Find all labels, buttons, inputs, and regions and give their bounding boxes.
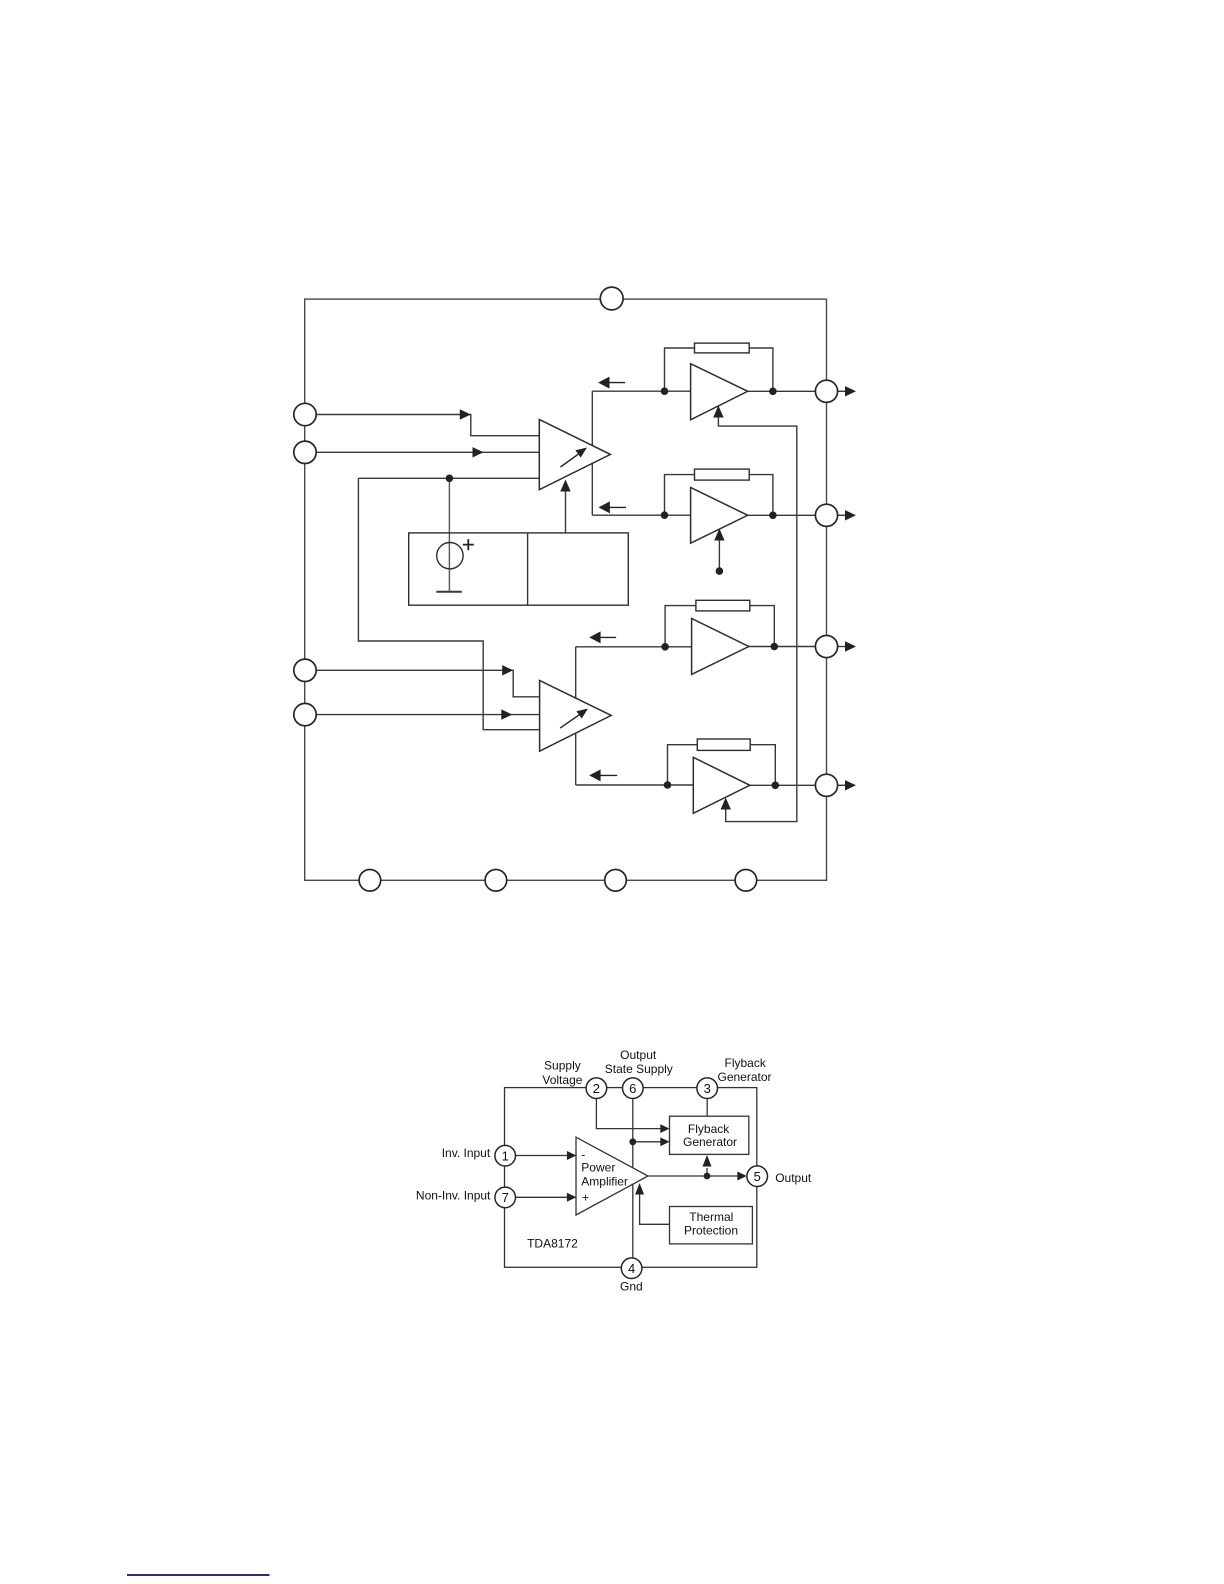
arrowhead output pin OUT3	[845, 641, 856, 651]
pin GND1	[359, 870, 381, 892]
pin 6	[623, 1078, 644, 1099]
svg-text:Gnd: Gnd	[620, 1279, 643, 1293]
arrowhead up into amp from thermal protection	[635, 1183, 644, 1195]
wire pin3 to flyback generator top	[706, 1098, 708, 1116]
svg-text:Output: Output	[775, 1171, 812, 1185]
wire to amp A1 input	[592, 390, 690, 392]
pin 1	[495, 1145, 516, 1166]
wire to amp A3 input	[576, 646, 692, 648]
output lead pin OUT2	[837, 514, 846, 516]
feedback loop around amp A1	[665, 348, 773, 391]
arrowhead pin1 wire	[460, 409, 471, 419]
svg-text:Protection: Protection	[684, 1223, 738, 1237]
arrowhead output pin OUT2	[845, 510, 856, 520]
svg-text:+: +	[582, 1191, 589, 1205]
pin GND3	[605, 870, 627, 892]
svg-text:4: 4	[628, 1261, 635, 1276]
wire amp A2 output to pin	[748, 514, 816, 516]
arrowhead output pin OUT4	[845, 780, 856, 790]
footer rule (blue)	[127, 1574, 270, 1576]
wire reference node to amp U1 lower input	[358, 477, 539, 479]
arrowhead pin2 wire	[473, 447, 484, 457]
op-amp U2 (lower power amp)	[540, 680, 612, 751]
wire pin2 to amp U1 middle input	[316, 451, 539, 453]
arrowhead output pin OUT1	[845, 386, 856, 396]
arrowhead into amp inverting	[567, 1151, 577, 1160]
pin top supply	[600, 287, 623, 310]
wire pin3 to amp U2 upper input	[316, 670, 540, 697]
junction dot A1 output	[769, 388, 777, 396]
svg-text:Generator: Generator	[717, 1070, 771, 1084]
svg-text:3: 3	[704, 1081, 711, 1096]
wire bias from block to amp U1 bottom	[565, 491, 567, 533]
svg-text:Voltage: Voltage	[542, 1073, 582, 1087]
gain arrow inside U1	[561, 453, 580, 467]
svg-text:State Supply: State Supply	[605, 1062, 673, 1076]
wire to amp A4 input	[576, 784, 694, 786]
feedback loop around amp A2	[665, 475, 773, 516]
svg-text:5: 5	[754, 1169, 761, 1184]
wire reference node down to current source	[448, 478, 450, 592]
flow annotation arrow above A3 input	[600, 636, 616, 638]
pin circles of top diagram	[294, 287, 838, 891]
arrowhead bias into A4	[721, 798, 731, 810]
arrowhead into flyback gen from pin6	[660, 1137, 669, 1146]
op-amp A2 (output buffer 2)	[691, 487, 748, 543]
labels of TDA8172 diagram	[416, 1048, 812, 1293]
output lead pin OUT1	[837, 390, 846, 392]
pin 5	[747, 1166, 768, 1187]
pin IN1-	[294, 441, 316, 463]
arrowhead pin4 wire	[501, 709, 512, 719]
arrowhead bias into A1	[713, 406, 723, 418]
svg-text:TDA8172: TDA8172	[527, 1236, 578, 1250]
pin 4	[621, 1258, 642, 1279]
arrowhead into amp non-inverting	[567, 1193, 577, 1202]
svg-text:Generator: Generator	[683, 1135, 737, 1149]
pin IN2-	[294, 703, 316, 725]
arrowhead into flyback gen from pin2	[660, 1124, 669, 1133]
current source / bias block box	[409, 533, 629, 605]
pin OUT2	[815, 504, 837, 526]
resistor R3	[696, 600, 750, 611]
arrowhead bias into A2	[714, 529, 724, 541]
svg-text:Non-Inv. Input: Non-Inv. Input	[416, 1189, 491, 1203]
junction dot A4 output	[772, 782, 780, 790]
bias stub wire below amp A2	[718, 539, 720, 571]
wire U1 output bus down	[591, 391, 593, 515]
junction dot pin6 branch	[629, 1138, 636, 1145]
pin OUT3	[815, 635, 837, 657]
junction dot A2 output	[769, 512, 777, 520]
flyback generator box	[670, 1116, 749, 1154]
arrowhead pin3 wire	[502, 665, 513, 675]
pin OUT1	[815, 380, 837, 402]
pin IN1+	[294, 403, 316, 425]
output lead pin OUT3	[837, 646, 846, 648]
junction dot A3 input	[661, 643, 669, 651]
junction dot output node	[704, 1173, 711, 1180]
op-amp U1 (upper power amp)	[539, 419, 610, 489]
junction dot A4 input	[664, 781, 672, 789]
wire pin4 to amp U2 middle input	[316, 714, 540, 716]
svg-text:Inv. Input: Inv. Input	[442, 1146, 491, 1160]
pin circles of TDA8172	[495, 1078, 768, 1279]
wire pin1 to amp U1 upper input	[316, 415, 539, 436]
thermal protection box	[670, 1207, 753, 1244]
wire amp A3 output to pin	[749, 646, 816, 648]
wire reference to amp U2 lower input (L path)	[358, 478, 539, 729]
wire pin2 to flyback generator	[596, 1098, 661, 1129]
svg-text:Supply: Supply	[544, 1059, 581, 1073]
wire pin6 branch to flyback generator	[633, 1141, 661, 1143]
pin 3	[697, 1078, 718, 1099]
ground bar of current source	[436, 591, 462, 593]
flow annotation arrow above A1 input	[589, 377, 626, 782]
svg-text:-: -	[581, 1148, 585, 1162]
IC boundary box TDA8172	[505, 1088, 757, 1268]
svg-text:Amplifier: Amplifier	[581, 1175, 628, 1189]
bias block divider	[527, 533, 529, 605]
svg-text:2: 2	[593, 1081, 600, 1096]
junction dot A2 input	[661, 511, 669, 519]
op-amp A4 (output buffer 4)	[693, 757, 750, 813]
resistor R2	[695, 469, 750, 480]
svg-text:7: 7	[502, 1190, 509, 1205]
terminal dot below A2 bias	[716, 567, 724, 575]
bias chain wire amp A1 to amp A4	[718, 416, 796, 822]
outer IC boundary box (top diagram)	[305, 299, 827, 880]
current source I1 circle	[437, 543, 463, 569]
output lead pin OUT4	[837, 784, 846, 786]
svg-text:1: 1	[502, 1148, 509, 1163]
wire amp output to pin5	[648, 1175, 738, 1177]
svg-text:Flyback: Flyback	[688, 1122, 730, 1136]
pin 2	[586, 1078, 607, 1099]
plus label of current source	[463, 539, 474, 550]
op-amp A3 (output buffer 3)	[692, 618, 749, 674]
arrowhead up into flyback gen bottom	[703, 1155, 712, 1167]
resistor R1	[695, 343, 750, 353]
wire pin7 to amp non-inverting input	[515, 1196, 567, 1198]
junction dot node ref	[446, 475, 454, 483]
wire U2 output bus down	[575, 647, 577, 785]
wire pin6 down to gnd pin4	[632, 1098, 634, 1258]
flow annotation arrow above A2 input	[609, 506, 626, 508]
pin 7	[495, 1187, 516, 1208]
arrowhead bias into U1	[560, 480, 570, 492]
svg-text:Output: Output	[620, 1048, 657, 1062]
pin GND4	[735, 870, 757, 892]
wire output node up to flyback generator	[706, 1168, 708, 1176]
svg-text:Power: Power	[581, 1161, 615, 1175]
svg-text:Flyback: Flyback	[725, 1056, 767, 1070]
gain arrow inside U2	[560, 714, 580, 728]
op-amp A1 (output buffer 1)	[691, 364, 748, 420]
arrowhead into pin5	[737, 1172, 747, 1181]
flow annotation arrow above A4 input	[600, 774, 617, 776]
pin GND2	[485, 870, 507, 892]
resistor R4	[697, 739, 750, 750]
wire amp A4 output to pin	[750, 784, 816, 786]
wire thermal protection to amp	[640, 1195, 670, 1225]
wire amp A1 output to pin	[748, 390, 816, 392]
wire to amp A2 input	[592, 514, 690, 516]
power amplifier triangle	[576, 1137, 648, 1215]
feedback loop around amp A4	[668, 745, 776, 785]
feedback loop around amp A3	[665, 606, 774, 647]
svg-text:Thermal: Thermal	[689, 1210, 733, 1224]
pin OUT4	[815, 774, 837, 796]
junction dot A3 output	[771, 643, 779, 651]
junction dot A1 input	[661, 387, 669, 395]
pin IN2+	[294, 659, 316, 681]
wire pin1 to amp inverting input	[515, 1155, 567, 1157]
svg-text:6: 6	[629, 1081, 636, 1096]
